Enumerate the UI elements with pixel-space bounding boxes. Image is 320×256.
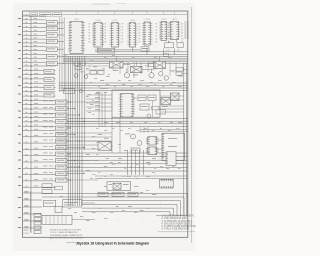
svg-text:5. J1 DB15 GAME CONNECTOR: 5. J1 DB15 GAME CONNECTOR [162, 225, 197, 228]
svg-text:1. ALL RES 1/4W 5% CARBON: 1. ALL RES 1/4W 5% CARBON [162, 215, 195, 218]
svg-text:LS244: LS244 [112, 20, 117, 22]
svg-text:C1-C6 .1 MFD BYPASS 25V: C1-C6 .1 MFD BYPASS 25V [50, 231, 78, 234]
svg-text:Joystick 16 Using Best In Sche: Joystick 16 Using Best In Schematic Diag… [76, 242, 149, 246]
svg-text:GND: GND [24, 230, 29, 232]
svg-text:LS374: LS374 [172, 19, 177, 21]
svg-text:U10 NE558 QUAD TIMER DIP14: U10 NE558 QUAD TIMER DIP14 [50, 234, 83, 237]
svg-text:LS244: LS244 [130, 20, 135, 22]
svg-text:LS374: LS374 [145, 19, 150, 21]
svg-text:4. SW1 SETS ADDR SELECT: 4. SW1 SETS ADDR SELECT [162, 222, 193, 225]
svg-text:ALL DIODES 1N914 SWITCHING: ALL DIODES 1N914 SWITCHING [50, 236, 83, 239]
svg-text:6. XTAL 14.318 MHZ NOM: 6. XTAL 14.318 MHZ NOM [162, 228, 189, 231]
svg-text:LS374: LS374 [161, 19, 166, 21]
svg-text:LS244: LS244 [95, 20, 100, 22]
svg-text:PWR: PWR [24, 233, 30, 235]
